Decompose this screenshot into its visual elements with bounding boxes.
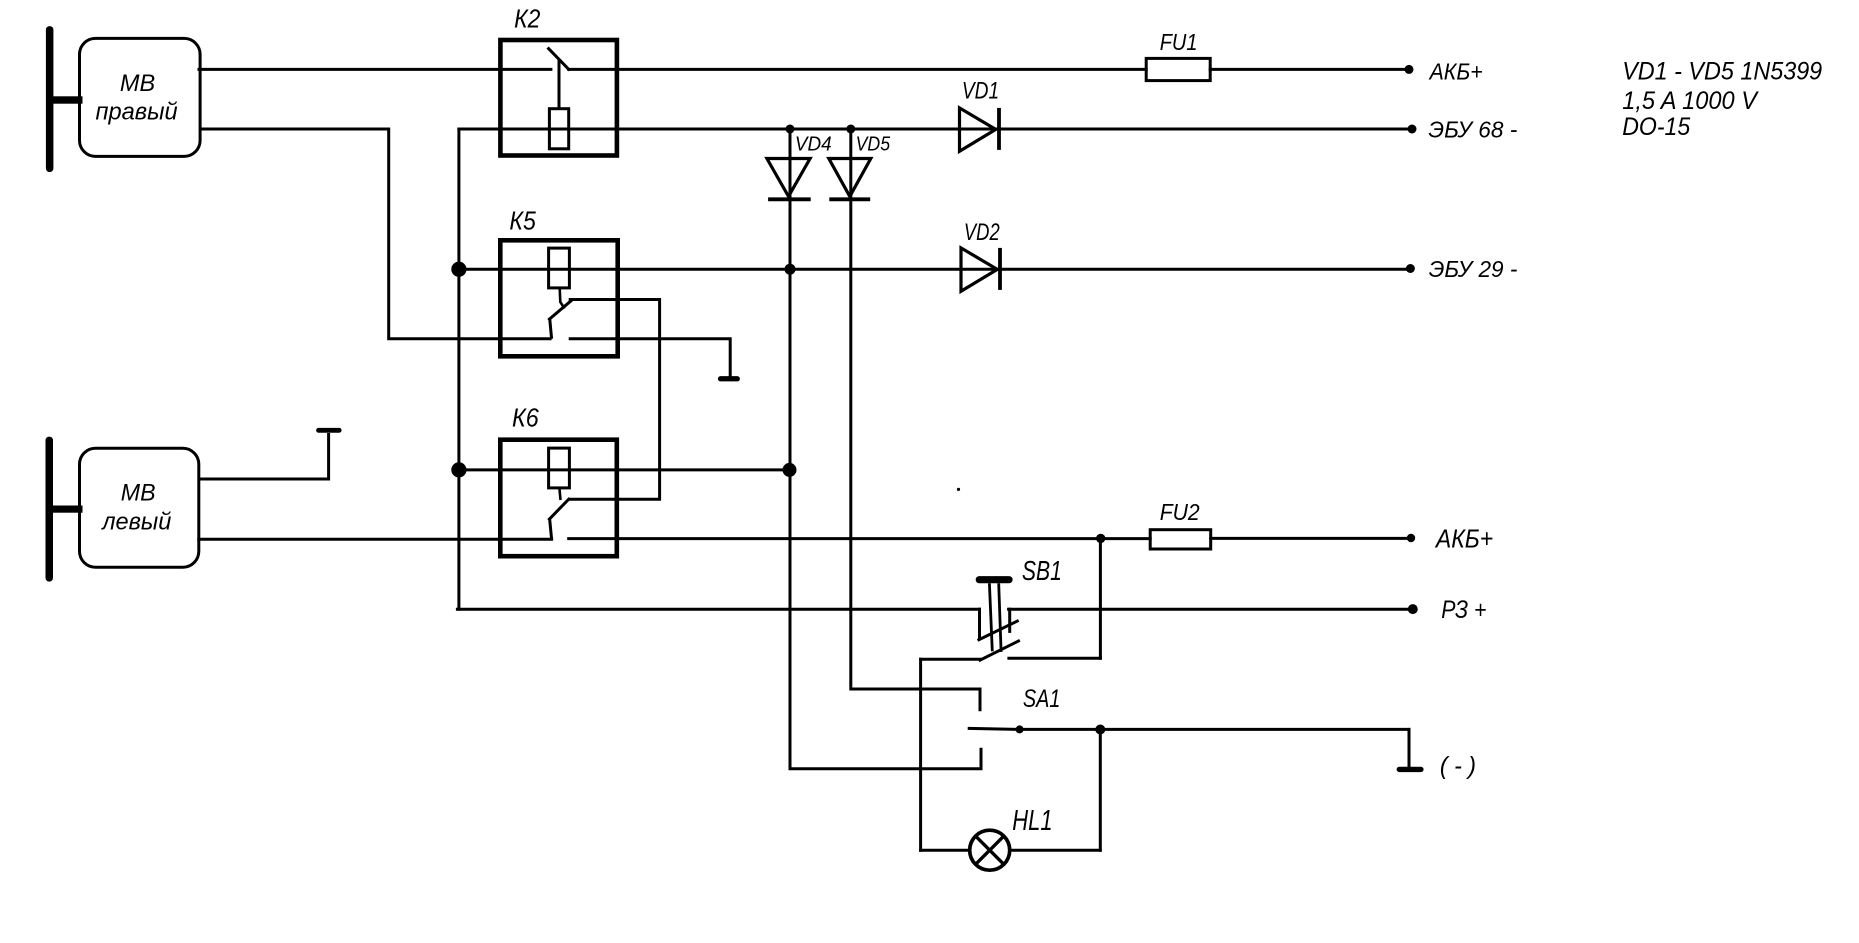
wire lamp left — [921, 849, 969, 852]
svg-text:DO-15: DO-15 — [1622, 113, 1690, 141]
K5 coil — [549, 248, 570, 288]
minus terminal bar — [1397, 767, 1424, 772]
K5 actuator stem — [560, 288, 565, 309]
wire lamp right — [1011, 849, 1101, 852]
junction dot bus/K6 coil — [451, 462, 466, 477]
terminal dot ЭБУ 68 — [1408, 125, 1417, 134]
svg-text:( - ): ( - ) — [1440, 752, 1476, 780]
wire K2 coil row / ЭБУ 68 line — [459, 128, 1412, 131]
diode VD5 — [829, 159, 871, 197]
junction dot SA1 pivot — [1016, 725, 1024, 733]
ground symbol at K5 — [718, 376, 740, 381]
wire МВ левый bottom to K6 common — [199, 538, 552, 541]
diode VD2 — [961, 248, 997, 291]
wire K5 NC contact to K6 NC contact — [569, 300, 660, 500]
svg-text:левый: левый — [100, 509, 171, 536]
SB1 plunger left line — [989, 583, 992, 651]
svg-text:К2: К2 — [514, 4, 541, 34]
K5 switch blade — [549, 301, 571, 319]
wire FU1 to АКБ+ terminal — [1210, 68, 1409, 71]
diode VD1 — [960, 108, 996, 151]
svg-text:1,5 A 1000 V: 1,5 A 1000 V — [1622, 87, 1759, 115]
wire VD5 line down to SA1 upper throw — [851, 129, 980, 711]
svg-text:ЭБУ 68 -: ЭБУ 68 - — [1428, 117, 1517, 143]
МВ правый connector — [52, 96, 83, 103]
svg-text:SA1: SA1 — [1023, 685, 1061, 713]
svg-text:РЗ +: РЗ + — [1441, 596, 1486, 624]
svg-text:МВ: МВ — [121, 480, 156, 507]
wire K6 coil row — [459, 468, 790, 471]
K6 coil — [549, 448, 570, 488]
VD5 cathode bar — [829, 197, 870, 201]
wire x1100 vertical SA1 to lamp — [1099, 730, 1102, 851]
diode VD4 — [767, 159, 810, 197]
stray speck artifact — [957, 488, 960, 491]
junction dot VD4 top — [786, 125, 795, 134]
K5 blade pivot leg — [550, 319, 552, 339]
K2 switch blade — [549, 49, 569, 70]
junction dot VD5 top — [846, 125, 855, 134]
HL1 cross — [976, 836, 1004, 864]
relay K6 box — [500, 440, 617, 557]
junction dot VD4 / ЭБУ29 — [785, 264, 796, 275]
SB1 upper blade — [979, 621, 1017, 640]
wire SB1 lower left contact — [921, 658, 981, 661]
VD4 cathode bar — [768, 197, 811, 201]
svg-text:HL1: HL1 — [1012, 805, 1052, 837]
terminal dot АКБ+ 2 — [1407, 534, 1415, 542]
wire SB1 upper right to РЗ+ terminal — [1009, 608, 1413, 611]
VD2 cathode bar — [998, 248, 1002, 290]
svg-text:VD4: VD4 — [795, 133, 832, 155]
wire SB1 lower right contact — [1009, 657, 1101, 660]
terminal dot ЭБУ 29 — [1406, 264, 1415, 273]
terminal dot АКБ+ top — [1405, 65, 1414, 74]
wire x1100 vertical FU2 junction to SB1 — [1099, 539, 1102, 659]
wire ЭБУ 29 row through K5 coil — [459, 268, 1411, 271]
svg-text:VD5: VD5 — [856, 133, 891, 155]
relay K2 box — [500, 40, 617, 156]
junction dot SA1 / x1100 — [1095, 725, 1105, 735]
wire МВ левый top to terminal T — [199, 433, 329, 479]
svg-text:К6: К6 — [512, 403, 539, 433]
svg-text:К5: К5 — [509, 206, 536, 236]
relay K5 box — [500, 240, 617, 356]
МВ левый connector — [52, 506, 83, 513]
wire K2 contact to FU1 — [569, 68, 1146, 71]
fuse FU2 — [1150, 530, 1211, 549]
SB1 lower blade — [980, 641, 1018, 660]
wire K6 NO contact to FU2 — [569, 537, 1150, 540]
wire minus terminal drop — [1408, 729, 1411, 767]
SB1 plunger right line — [999, 583, 1001, 652]
junction dot bus/K5 coil — [451, 262, 466, 277]
K6 blade pivot leg — [550, 519, 552, 540]
fuse FU1 — [1146, 58, 1210, 80]
K2 coil — [549, 109, 568, 149]
svg-text:VD2: VD2 — [964, 219, 1000, 246]
wire МВ правый bottom down to K5 common — [199, 129, 552, 339]
wire coil bus x=459 vertical — [457, 129, 460, 609]
svg-text:VD1 - VD5 1N5399: VD1 - VD5 1N5399 — [1622, 58, 1822, 86]
svg-text:FU1: FU1 — [1160, 29, 1198, 55]
wire SA1 blade — [969, 728, 1019, 729]
svg-text:ЭБУ 29 -: ЭБУ 29 - — [1429, 256, 1518, 282]
wire K5 NO contact to ground — [569, 339, 731, 377]
МВ правый terminal bar — [46, 26, 54, 172]
wire SA1 common to minus terminal — [1020, 728, 1409, 731]
wire VD4 line down to SA1 lower throw — [790, 129, 981, 769]
pushbutton SB1 cap — [976, 576, 1013, 583]
svg-text:FU2: FU2 — [1160, 499, 1200, 525]
motor МВ правый box — [80, 38, 201, 156]
VD1 cathode bar — [997, 108, 1001, 150]
wire x920 vertical SB1 to lamp — [919, 659, 922, 850]
svg-text:SB1: SB1 — [1022, 555, 1062, 586]
svg-text:МВ: МВ — [120, 70, 155, 97]
svg-text:правый: правый — [96, 99, 178, 126]
K6 actuator stem — [559, 488, 560, 500]
SB1 upper right contact stub — [1008, 609, 1011, 631]
svg-text:АКБ+: АКБ+ — [1434, 523, 1493, 553]
K2 actuator stem — [558, 59, 561, 108]
svg-text:VD1: VD1 — [962, 78, 999, 105]
svg-text:АКБ+: АКБ+ — [1428, 59, 1483, 85]
junction dot FU2 / x1100 — [1096, 534, 1105, 543]
terminal dot РЗ+ — [1408, 604, 1418, 614]
terminal T bar above МВ левый — [316, 428, 342, 433]
motor МВ левый box — [80, 448, 199, 567]
K6 switch blade — [549, 499, 568, 519]
lamp HL1 circle — [970, 830, 1010, 870]
SB1 upper left contact drop — [978, 609, 981, 639]
wire РЗ+ row to SB1 left contact — [457, 608, 979, 611]
wire МВ правый top to K2 contact — [199, 68, 551, 71]
wire FU2 to АКБ+ terminal 2 — [1211, 537, 1411, 540]
junction dot VD4 / K6 coil row — [783, 463, 797, 477]
МВ левый terminal bar — [46, 437, 54, 582]
